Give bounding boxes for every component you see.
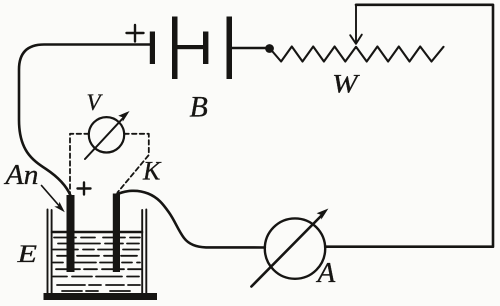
svg-text:B: B xyxy=(190,91,208,124)
svg-text:W: W xyxy=(332,69,361,99)
beaker left wall inner xyxy=(51,210,53,294)
rheostat wiper arrow xyxy=(350,5,362,44)
svg-text:V: V xyxy=(87,90,104,115)
ammeter A circle xyxy=(265,218,325,278)
svg-text:E: E xyxy=(16,241,37,268)
beaker right wall inner xyxy=(141,210,143,294)
svg-text:An: An xyxy=(3,160,38,191)
wire top-right loop: wiper to ammeter xyxy=(325,5,493,247)
battery connecting bar xyxy=(176,45,205,49)
beaker right wall outer xyxy=(145,210,147,294)
battery B xyxy=(150,17,232,80)
electrolyte hatching lines xyxy=(53,238,141,292)
ammeter needle arrow xyxy=(251,209,328,287)
arrow from label An to anode xyxy=(42,186,65,213)
rheostat W zigzag xyxy=(273,47,444,62)
battery plate 1 (short, + end) xyxy=(150,32,155,65)
dashed wire voltmeter to cathode xyxy=(118,134,149,193)
electrode cathode K xyxy=(113,194,120,273)
electrolytic cell E beaker xyxy=(44,210,158,301)
voltmeter needle arrow xyxy=(85,111,130,159)
node junction dot xyxy=(265,44,274,53)
polarity + at battery xyxy=(127,25,144,42)
wire battery to junction node xyxy=(232,47,266,50)
beaker bottom base xyxy=(44,293,158,300)
voltmeter V circle xyxy=(89,117,124,152)
battery plate 4 (long) xyxy=(227,17,233,80)
dashed wire voltmeter to anode xyxy=(70,134,89,194)
svg-text:K: K xyxy=(142,157,162,186)
battery plate 3 (short) xyxy=(203,32,208,65)
battery plate 2 (long) xyxy=(172,17,178,80)
polarity + at anode xyxy=(78,183,91,195)
wire from battery positive down left side to anode xyxy=(19,45,150,196)
svg-text:A: A xyxy=(316,257,336,289)
electrode anode An (+) xyxy=(67,195,75,272)
wire ammeter to cathode K xyxy=(117,191,265,248)
electrolyte liquid surface line xyxy=(52,231,142,234)
beaker left wall outer xyxy=(47,210,49,294)
